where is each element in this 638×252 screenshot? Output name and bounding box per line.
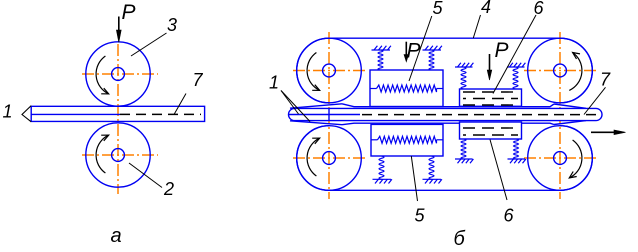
centerline horizontal bottom roller (a) xyxy=(82,154,158,156)
leader line 6 bottom xyxy=(490,140,507,201)
coil spring below damper6 right xyxy=(514,139,519,159)
spring 5 top horizontal spring xyxy=(377,85,437,92)
pulley bottom-right hub xyxy=(554,152,567,165)
rotation arrow top roller (a) xyxy=(96,56,109,94)
svg-text:6: 6 xyxy=(504,206,515,226)
rotation arrow bottom roller (a) xyxy=(96,135,109,173)
centerline vertical rollers (a) xyxy=(117,44,119,194)
strip 7 workpiece (a) xyxy=(31,106,204,121)
leader line 5 top xyxy=(409,16,432,81)
rotation arrow pulley BL xyxy=(307,138,320,176)
svg-text:P: P xyxy=(122,1,136,24)
svg-text:3: 3 xyxy=(167,15,177,35)
damper 6 bottom liquid dashes xyxy=(463,128,518,135)
coil spring above damper6 left xyxy=(461,67,466,89)
svg-text:4: 4 xyxy=(481,0,491,17)
centerline horizontal pulley BL xyxy=(293,157,365,159)
force P arrow (a) xyxy=(116,17,121,43)
leader line 7 (b) xyxy=(584,87,606,114)
coil spring above damper6 right xyxy=(513,67,518,89)
coil spring below box5 right xyxy=(429,156,434,179)
pulley top-right (b) xyxy=(528,38,593,103)
svg-text:7: 7 xyxy=(600,70,611,90)
svg-text:P: P xyxy=(495,39,509,62)
fixed support below damper6 right xyxy=(508,159,526,163)
centerline vertical right pulleys (b) xyxy=(559,32,561,199)
centerline horizontal top roller (a) xyxy=(82,73,158,75)
centerline horizontal pulley TR xyxy=(524,70,596,72)
spring box 5 top housing xyxy=(370,70,443,107)
centerline horizontal pulley TL xyxy=(293,70,365,72)
pulley bottom-left hub xyxy=(323,152,336,165)
fixed support below box5 right xyxy=(423,179,442,183)
fixed support below box5 left xyxy=(373,179,392,183)
belt 4 top loop xyxy=(290,38,592,108)
strip 1 workpiece (b) capsule xyxy=(289,108,603,120)
fixed support above damper6 left xyxy=(455,63,473,67)
pulley top-left (b) xyxy=(297,38,362,103)
pulley bottom-right (b) xyxy=(528,126,593,191)
spring 5 bottom horizontal spring xyxy=(378,136,437,143)
rotation arrow pulley TL xyxy=(307,53,320,91)
svg-text:б: б xyxy=(454,228,466,250)
strip axis dashed line (b) xyxy=(362,114,599,116)
centerline horizontal pulley BR xyxy=(524,157,596,159)
rotation arrow pulley TR xyxy=(569,53,582,91)
fixed support above box5 left xyxy=(372,46,391,50)
centerline vertical left pulleys (b) xyxy=(328,32,330,199)
leader lines 1 (b) xyxy=(281,91,310,122)
strip interface line blue (a) xyxy=(31,113,120,115)
fixed support above box5 right xyxy=(423,46,442,50)
svg-text:6: 6 xyxy=(534,0,545,18)
svg-text:P: P xyxy=(407,40,421,63)
belt bottom loop xyxy=(290,121,592,191)
feed arrow 1 open head (a) xyxy=(22,106,31,122)
svg-text:1: 1 xyxy=(269,73,279,93)
svg-text:5: 5 xyxy=(415,206,426,226)
svg-text:7: 7 xyxy=(193,70,204,90)
rotation arrow pulley BR xyxy=(569,140,582,178)
coil spring below damper6 left xyxy=(461,139,466,159)
pulley top-left hub xyxy=(323,64,336,77)
damper 6 top liquid dashes xyxy=(463,92,518,105)
roller 3 hub xyxy=(112,68,125,81)
svg-text:1: 1 xyxy=(3,102,13,122)
roller 2 hub xyxy=(112,149,125,162)
leader line 6 top xyxy=(493,15,536,94)
centerline crossing segment at left pulleys xyxy=(328,108,330,120)
leader line 7 (a) xyxy=(174,94,186,115)
svg-text:а: а xyxy=(111,225,122,247)
roller 3 top roll (a) xyxy=(86,42,150,106)
strip axis dashed line (a) xyxy=(120,113,201,115)
leader line 5 bottom xyxy=(411,156,417,201)
exit arrow (b) xyxy=(591,130,626,135)
pulley top-right hub xyxy=(554,64,567,77)
spring box 5 bottom housing xyxy=(371,124,443,156)
pulley bottom-left (b) xyxy=(297,126,362,191)
fixed support above damper6 right xyxy=(507,63,525,67)
damper box 6 bottom xyxy=(460,122,522,139)
fixed support below damper6 left xyxy=(455,159,473,163)
force P arrow over box 5 xyxy=(404,42,409,62)
coil spring above box5 left xyxy=(378,50,383,70)
force P arrow over damper 6 xyxy=(487,54,492,80)
strip interface line blue (b) xyxy=(289,114,360,116)
leader line 2 xyxy=(129,163,162,188)
leader line 4 xyxy=(473,15,480,38)
leader line 3 xyxy=(131,33,167,56)
coil spring below box5 left xyxy=(379,156,384,179)
svg-text:5: 5 xyxy=(433,0,444,18)
svg-text:2: 2 xyxy=(163,179,174,199)
roller 2 bottom roll (a) xyxy=(86,123,150,187)
damper box 6 top xyxy=(460,89,522,106)
coil spring above box5 right xyxy=(429,50,434,70)
